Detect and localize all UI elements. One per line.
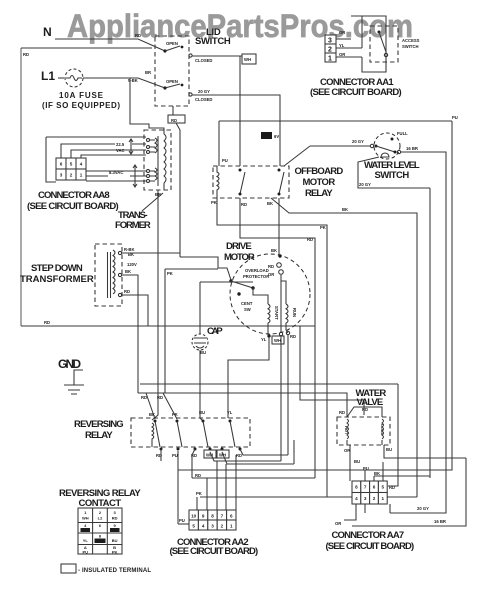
- svg-text:20 GY: 20 GY: [359, 182, 371, 187]
- svg-text:3: 3: [60, 173, 63, 178]
- svg-text:RD: RD: [44, 320, 50, 325]
- svg-text:PU: PU: [172, 453, 178, 458]
- svg-text:OPEN: OPEN: [166, 79, 178, 84]
- svg-text:RD: RD: [362, 407, 368, 412]
- svg-text:7: 7: [221, 514, 224, 519]
- svg-text:5: 5: [382, 485, 385, 490]
- svg-text:BU: BU: [354, 459, 360, 464]
- svg-text:FORMER: FORMER: [115, 220, 151, 231]
- svg-text:BU: BU: [200, 350, 206, 355]
- svg-text:PU: PU: [452, 115, 458, 120]
- svg-text:OR: OR: [339, 52, 345, 57]
- svg-text:WH: WH: [244, 57, 251, 62]
- svg-text:STEP DOWN: STEP DOWN: [31, 263, 83, 274]
- svg-text:CLOSED: CLOSED: [195, 97, 212, 102]
- svg-text:(SEE CIRCUIT BOARD): (SEE CIRCUIT BOARD): [310, 87, 402, 98]
- svg-text:2: 2: [328, 47, 332, 54]
- svg-text:RD: RD: [268, 264, 274, 269]
- svg-text:10: 10: [191, 514, 197, 519]
- svg-text:YL: YL: [339, 43, 345, 48]
- svg-text:8.3VAC: 8.3VAC: [109, 170, 123, 175]
- svg-text:3: 3: [364, 496, 367, 501]
- svg-text:RD: RD: [195, 473, 201, 478]
- svg-text:BU: BU: [199, 410, 205, 415]
- svg-text:1: 1: [328, 56, 332, 63]
- svg-text:(SEE CIRCUIT BOARD): (SEE CIRCUIT BOARD): [170, 546, 259, 557]
- svg-text:(SEE CIRCUIT BOARD): (SEE CIRCUIT BOARD): [27, 201, 119, 212]
- svg-text:10A FUSE: 10A FUSE: [59, 91, 104, 100]
- svg-text:BK: BK: [125, 269, 131, 274]
- svg-text:BU: BU: [112, 538, 118, 543]
- svg-text:OR: OR: [344, 448, 350, 453]
- svg-text:2: 2: [70, 173, 73, 178]
- svg-text:RD: RD: [236, 453, 242, 458]
- svg-text:2: 2: [221, 524, 224, 529]
- svg-text:BU: BU: [386, 447, 392, 452]
- svg-text:PROTECTOR: PROTECTOR: [243, 274, 269, 279]
- svg-text:CLOSED: CLOSED: [195, 58, 212, 63]
- svg-text:TRANSFORMER: TRANSFORMER: [20, 274, 94, 285]
- svg-text:20 GY: 20 GY: [198, 89, 210, 94]
- svg-text:WH: WH: [274, 338, 281, 343]
- svg-text:7: 7: [364, 485, 367, 490]
- svg-text:RELAY: RELAY: [305, 188, 333, 199]
- svg-text:1: 1: [80, 173, 83, 178]
- svg-text:ACCESS: ACCESS: [402, 38, 420, 43]
- svg-text:RD: RD: [23, 52, 29, 57]
- svg-text:PK: PK: [112, 550, 118, 555]
- svg-text:VALVE: VALVE: [357, 397, 384, 408]
- svg-text:FULL: FULL: [397, 131, 408, 136]
- svg-text:PU: PU: [222, 158, 228, 163]
- svg-text:CONTACT: CONTACT: [79, 498, 122, 509]
- svg-text:BK: BK: [267, 201, 273, 206]
- svg-text:8: 8: [355, 485, 358, 490]
- svg-text:8: 8: [211, 514, 214, 519]
- svg-text:3: 3: [211, 524, 214, 529]
- svg-text:22.5: 22.5: [116, 142, 125, 147]
- svg-text:5-BK: 5-BK: [128, 78, 138, 83]
- svg-text:3: 3: [328, 38, 332, 45]
- svg-text:RD: RD: [112, 516, 118, 521]
- svg-text:26: 26: [263, 134, 269, 140]
- svg-text:PK: PK: [320, 225, 326, 230]
- svg-text:RUN: RUN: [292, 308, 297, 317]
- svg-text:PU: PU: [83, 550, 89, 555]
- svg-text:BK: BK: [149, 412, 155, 417]
- svg-text:CAP: CAP: [207, 326, 223, 337]
- svg-text:9: 9: [202, 514, 205, 519]
- svg-text:START: START: [274, 306, 279, 320]
- svg-text:RD: RD: [135, 33, 141, 38]
- svg-text:PK: PK: [167, 271, 173, 276]
- svg-text:VAC: VAC: [116, 148, 125, 153]
- svg-text:PK: PK: [196, 491, 202, 496]
- svg-text:CENT: CENT: [241, 301, 253, 306]
- svg-text:RD: RD: [124, 289, 130, 294]
- svg-text:OR: OR: [339, 30, 345, 35]
- svg-text:BR: BR: [145, 70, 151, 75]
- svg-text:N: N: [43, 25, 52, 39]
- svg-text:CONNECTOR AA8: CONNECTOR AA8: [38, 190, 110, 201]
- svg-text:GND: GND: [58, 357, 81, 371]
- svg-text:OFFBOARD: OFFBOARD: [295, 166, 344, 177]
- svg-text:(SEE CIRCUIT BOARD): (SEE CIRCUIT BOARD): [326, 541, 415, 552]
- svg-text:1: 1: [230, 524, 233, 529]
- svg-text:DRIVE: DRIVE: [226, 241, 252, 252]
- svg-text:6: 6: [60, 162, 63, 167]
- svg-text:20 GY: 20 GY: [417, 506, 429, 511]
- svg-text:SW: SW: [244, 307, 251, 312]
- svg-text:PK: PK: [211, 200, 217, 205]
- svg-text:(IF SO EQUIPPED): (IF SO EQUIPPED): [42, 101, 120, 110]
- svg-text:120V: 120V: [127, 262, 137, 267]
- svg-text:2: 2: [373, 496, 376, 501]
- svg-text:4: 4: [80, 162, 83, 167]
- svg-text:WH: WH: [82, 516, 89, 521]
- svg-text:RD: RD: [290, 334, 296, 339]
- svg-text:RD: RD: [307, 237, 313, 242]
- svg-text:OVERLOAD: OVERLOAD: [245, 268, 269, 273]
- svg-text:SWITCH: SWITCH: [402, 44, 419, 49]
- svg-text:YL: YL: [83, 538, 89, 543]
- svg-text:REVERSING: REVERSING: [74, 419, 124, 430]
- svg-text:- INSULATED TERMINAL: - INSULATED TERMINAL: [78, 568, 151, 574]
- svg-text:4: 4: [355, 496, 358, 501]
- svg-text:SWITCH: SWITCH: [195, 36, 231, 47]
- svg-text:6: 6: [230, 514, 233, 519]
- svg-text:5: 5: [70, 162, 73, 167]
- svg-text:RD: RD: [171, 118, 177, 123]
- svg-text:RD: RD: [241, 202, 247, 207]
- svg-text:BK: BK: [271, 248, 277, 253]
- svg-text:16 BR: 16 BR: [406, 146, 418, 151]
- svg-text:OPEN: OPEN: [166, 41, 178, 46]
- svg-text:PU: PU: [179, 518, 185, 523]
- svg-text:BK: BK: [374, 471, 380, 476]
- svg-text:4: 4: [202, 524, 205, 529]
- svg-text:RELAY: RELAY: [85, 430, 113, 441]
- svg-text:MOTOR: MOTOR: [224, 252, 255, 263]
- svg-text:5: 5: [192, 524, 195, 529]
- svg-text:COLD: COLD: [380, 424, 385, 435]
- svg-text:L1: L1: [41, 69, 55, 83]
- svg-text:1: 1: [382, 496, 385, 501]
- svg-text:6: 6: [373, 485, 376, 490]
- svg-text:YL: YL: [227, 410, 233, 415]
- svg-text:L2: L2: [98, 516, 103, 521]
- svg-text:16 BR: 16 BR: [434, 519, 446, 524]
- svg-text:RD: RD: [157, 395, 163, 400]
- svg-text:BK: BK: [342, 207, 348, 212]
- svg-text:MOTOR: MOTOR: [303, 177, 336, 188]
- svg-text:20 GY: 20 GY: [352, 139, 364, 144]
- svg-text:SWITCH: SWITCH: [375, 170, 410, 181]
- svg-text:OR: OR: [335, 521, 341, 526]
- svg-text:RD: RD: [141, 395, 147, 400]
- svg-text:CONNECTOR AA7: CONNECTOR AA7: [332, 530, 405, 541]
- svg-text:RD: RD: [339, 410, 345, 415]
- svg-text:PK: PK: [172, 412, 178, 417]
- svg-text:6V: 6V: [274, 134, 279, 139]
- svg-text:YL: YL: [261, 337, 267, 342]
